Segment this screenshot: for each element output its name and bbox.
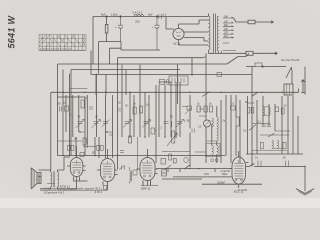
IF transformer Tr3 secondary coil [269,107,271,115]
wire chassis bus [51,89,299,171]
labels C27 C28 [255,157,286,160]
wire mains bottom [209,52,247,54]
wire top right horizontal [246,66,286,68]
capacitor C20 small [192,129,194,133]
oscillator coil box L4 [169,76,188,85]
svg-text:5 A 14 2: 5 A 14 2 [133,11,143,15]
label EBF 11 [141,187,151,191]
capacitor C18 box [187,106,192,110]
IF transformer Tr2 primary coil [212,146,214,155]
svg-text:0,1µF 50: 0,1µF 50 [221,170,231,173]
switch S4 arm [185,108,191,114]
junction dots group [62,63,305,169]
resistor R18 below V2 [104,185,107,189]
resistor R9 pot body [172,131,175,143]
svg-text:B Sperrkreis 4 W 2: B Sperrkreis 4 W 2 [44,192,65,195]
wire HT rail [93,16,209,18]
capacitor C23 box [275,107,278,112]
tuning capacitor CV1 [76,120,85,129]
capacitor C9 pair [68,145,71,150]
switch S6 arm to output transformer [286,67,292,78]
capacitor C15 small [120,137,138,170]
svg-text:2000pF: 2000pF [217,181,226,184]
vertical wires right group [247,67,305,155]
note text Nur bei [281,58,300,62]
T1 voltage taps with arrows [223,17,236,51]
capacitor C17 box [173,159,176,164]
power transformer T1 secondary winding [217,16,218,51]
label V2 [95,190,103,194]
junction rail C2 [156,16,157,17]
resistor R8 [129,136,132,143]
component value labels scattered [57,97,287,155]
resistor R11 [197,106,200,112]
wire chassis psu area [98,42,160,74]
svg-text:EBF 11: EBF 11 [141,187,151,191]
svg-text:A 4 Lautsprecher mit Ausgangs: A 4 Lautsprecher mit Ausgangstransf. ang… [44,187,103,190]
wires U5 to transformer [166,17,209,46]
output transformer T3 box [284,84,293,95]
title 5641 W [7,14,17,48]
speaker LS1 [31,168,41,189]
caption texts bottom [44,170,248,195]
resistor R7 [83,138,86,145]
svg-text:200: 200 [135,20,140,24]
svg-text:500: 500 [57,103,62,106]
wire mains top [234,18,249,22]
fuse Si1 [248,20,255,24]
capacitor C5 on wire C [217,72,222,76]
svg-text:50pF: 50pF [222,173,228,176]
wire mains bottom lead with arrow [253,52,278,55]
svg-text:K U G K U G K U G K U G 1 2 3: K U G K U G K U G K U G 1 2 3 [40,49,72,51]
vertical wires center group [122,65,180,163]
label AZ 11 [172,42,181,46]
T1 primary leads [208,14,210,54]
capacitor C1 4uF electrolytic [118,17,123,42]
svg-text:4 W 2: 4 W 2 [95,190,103,194]
output transformer T2 primary coil [51,172,52,187]
oscillator trimmer circle [204,120,211,127]
tube V3 EBF11 [137,149,159,186]
tube V1 ECH11 [67,146,88,189]
output transformer T2 core [53,172,54,188]
resistor R16 [260,142,263,149]
label ECH 11 [60,185,70,189]
wire A horizontal [58,63,228,65]
band switch S1 contact matrix table [39,35,86,51]
tuning capacitor CV4 [142,120,151,128]
wire ties mid [58,89,113,149]
resistor R14 [236,117,239,126]
rectifier tube U5 AZ11 [173,28,184,39]
power transformer T1 core [214,14,216,53]
junction rail C1 [120,16,121,17]
label 5 TR [47,183,55,185]
capacitor C21 box [247,108,250,114]
capacitor C26 box top right [255,63,262,66]
capacitor C14 box [133,170,137,175]
wire heater [110,48,122,64]
detector coil L6 [277,140,279,148]
wire mains top lead with arrow [255,21,274,24]
vertical wires mid-right group [190,53,240,167]
vertical wires left group [58,58,118,169]
coil bottom circles IF Tr1 [211,159,214,162]
power transformer T1 primary winding [209,16,211,50]
junction rail R1 [106,16,107,17]
resistor R1 1,2k [105,25,108,34]
capacitor C19 box [231,106,236,110]
vertical wire stubs [96,70,171,96]
IF transformer Tr1 primary coil [212,118,214,127]
wire D with arrow [118,57,206,104]
svg-text:1,2kΩ: 1,2kΩ [111,13,118,17]
trimmer capacitor CT1 [102,120,110,128]
svg-text:5641 W: 5641 W [7,14,17,48]
tube V4 ECL11 output [229,151,249,188]
junction C26 [262,66,263,67]
psu value labels [101,11,167,29]
resistor R2 box [65,106,69,111]
capacitor C3 0,1 on rail [159,14,161,19]
wire bottom caption line [40,181,151,191]
wire cathode bus [58,154,304,156]
resistor R15 [281,108,284,114]
capacitor C11 box [80,153,84,157]
wire C horizontal [91,51,252,75]
volume pot P1 arrow [165,133,177,170]
wire ties right and switch S5 [247,103,290,137]
capacitor C22 box [251,108,254,114]
Tr3 end ties [263,107,269,116]
tone switch S3 oval [184,157,188,163]
coil L2 [171,121,172,127]
resistor R17 [283,142,286,149]
svg-text:0,25: 0,25 [204,173,209,176]
T1 tap voltage labels [224,16,229,38]
svg-text:0,1: 0,1 [163,13,167,17]
output transformer T2 secondary coil [58,172,59,187]
capacitor C8 [164,122,169,124]
svg-text:Nur bei 97+42: Nur bei 97+42 [281,58,300,62]
wire B horizontal [71,70,180,157]
wire ties mid-right [162,92,217,153]
svg-text:4µF: 4µF [101,13,106,17]
capacitor C6 box [160,79,165,84]
wire V4 output to ground [245,164,305,192]
IF coil L3 beside tube V2 [130,171,132,182]
resistor R12 [204,106,207,112]
wire ties lower right [252,148,288,150]
tuning capacitor CV2 [92,120,101,129]
wire AF bus [156,154,262,184]
label ECL 11 [234,189,244,193]
svg-text:4µF: 4µF [148,13,153,17]
resistor R5 [140,106,143,113]
tube V2 EBF11 [97,149,118,190]
capacitor C2 4uF electrolytic [155,17,160,51]
ground symbol [296,189,314,194]
capacitor C12 and C13 small [60,107,121,112]
tuning capacitor CV5 [176,120,185,128]
capacitor C24 C25 pairs [262,125,271,127]
Sperrkreis box B [162,170,167,176]
resistor R3 [81,100,84,108]
wire rail left drop [92,17,94,65]
resistor R10 [169,154,172,160]
IF transformer Tr1 secondary coil [217,117,219,141]
capacitor C10 pair [97,145,100,150]
capacitor C7 oval [166,80,169,85]
svg-text:At 14 28: At 14 28 [238,189,248,192]
resistor R13 [210,106,213,112]
tuning capacitor CV3 [123,120,132,128]
capacitor C27 C28 on output wire [258,161,289,167]
resistor R6 [151,128,155,134]
capacitor C16 box [161,159,166,165]
band switch table caption row [39,49,85,51]
fuse Si2 [246,51,253,55]
IF transformer Tr2 box [206,144,220,157]
detector coil L5 [272,140,274,148]
IF transformer Tr3 primary coil [263,107,265,115]
resistor R4 [133,107,136,114]
choke L1 on rail [134,14,144,16]
IF transformer Tr2 secondary coil [217,146,219,155]
wires T2 to speaker and V1 [39,170,76,189]
antenna arrow symbol [301,80,305,93]
capacitor C4 across mains [219,51,222,54]
mains switch S2 arm [227,53,249,64]
